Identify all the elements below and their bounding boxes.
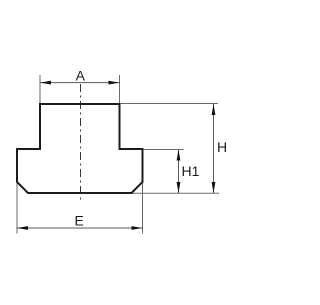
svg-text:A: A xyxy=(76,68,86,84)
svg-text:H: H xyxy=(217,139,227,155)
svg-text:H1: H1 xyxy=(182,163,200,179)
svg-text:E: E xyxy=(75,213,84,229)
